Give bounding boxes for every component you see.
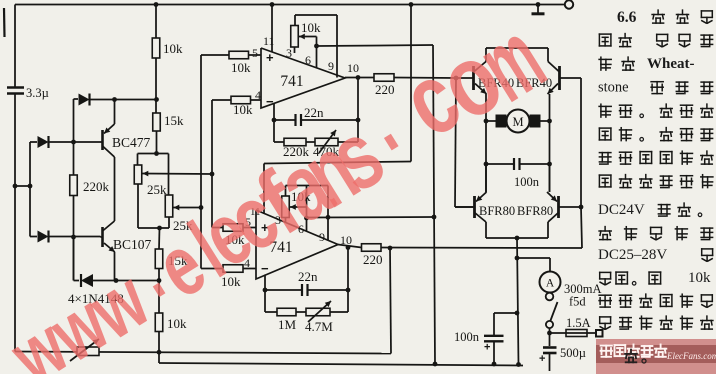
svg-text:15k: 15k — [164, 113, 184, 128]
svg-text:220: 220 — [375, 82, 395, 97]
wire left rail lower — [14, 94, 16, 352]
wire U2 output to right — [381, 247, 582, 250]
svg-text:220: 220 — [363, 252, 383, 267]
svg-text:−: − — [266, 94, 274, 109]
node junction offset negative rail — [432, 215, 437, 220]
potentiometer P3 10k offset — [291, 26, 299, 48]
node junction D2 row x73 — [71, 140, 76, 145]
svg-text:5: 5 — [252, 46, 258, 60]
svg-text:4: 4 — [255, 88, 261, 102]
op-amp U2 input resistor R10 10k — [223, 224, 243, 232]
wire top supply rail — [15, 4, 564, 6]
node junction C6 bottom — [492, 362, 497, 367]
wire U1 pin6 vertical — [316, 37, 318, 68]
wire U2 pin6 vertical — [306, 186, 308, 232]
potentiometer P1 25k upper — [137, 154, 139, 166]
op-amp U1 741 input resistor R6 10k — [229, 51, 249, 59]
svg-text:6: 6 — [305, 53, 311, 67]
wire op-amp U2 supply top — [264, 162, 411, 164]
potentiometer P2 25k lower — [168, 154, 170, 196]
connector supply plug — [536, 2, 541, 7]
node junction D1-BC477 — [112, 97, 117, 102]
wire U2 feedback left — [264, 275, 266, 313]
transistor Q2 BC107 — [101, 227, 104, 247]
diode D2 1N4148 — [30, 141, 37, 143]
node junction P5 wiper — [304, 216, 309, 221]
node junction feedback 22n right — [356, 118, 361, 123]
svg-text:220k: 220k — [83, 179, 110, 194]
resistor R13 1M — [265, 311, 277, 313]
svg-text:10k: 10k — [301, 20, 321, 35]
svg-text:100n: 100n — [454, 330, 480, 344]
node junction diode column — [28, 184, 33, 189]
wire P2 wiper — [174, 207, 202, 209]
op-amp U2 input resistor R11 10k — [223, 265, 243, 273]
op-amp U2 741 — [256, 210, 338, 279]
node junction BFR80 common — [515, 236, 520, 241]
resistor R4 15k lower — [158, 228, 161, 249]
capacitor C6 100n — [494, 312, 517, 314]
node junction R1 top — [154, 2, 159, 7]
logo elecfans — [596, 339, 716, 374]
diode D3 1N4148 — [30, 236, 37, 238]
svg-text:10k: 10k — [163, 41, 183, 56]
wire U2 offset loop top — [286, 185, 329, 187]
capacitor C1 3.3u — [7, 86, 24, 88]
wire U2 feedback right — [347, 248, 349, 313]
wire pots bottom — [138, 227, 169, 229]
node junction right base rail — [579, 205, 584, 210]
node junction C6 top — [515, 311, 520, 316]
node junction U2 22n left — [263, 288, 268, 293]
svg-text:1.5A: 1.5A — [566, 316, 591, 330]
node junction R5-main rail — [157, 350, 162, 355]
svg-text:+: + — [539, 353, 545, 365]
switch S1 blade — [551, 302, 558, 321]
wire inverting rail x201 — [200, 55, 202, 269]
transistor Q6 BFR80 right — [557, 196, 560, 218]
wire BFR40 collectors rail — [486, 47, 548, 49]
svg-text:500µ: 500µ — [560, 346, 586, 360]
svg-text:10k: 10k — [233, 102, 253, 117]
node junction wiper rail — [210, 172, 215, 177]
capacitor C3 22n — [265, 289, 302, 291]
wire U1 offset loop top — [295, 14, 337, 16]
svg-text:3.3µ: 3.3µ — [26, 86, 49, 100]
svg-text:BFR80: BFR80 — [479, 204, 515, 218]
resistor R9 220k feedback — [274, 141, 284, 143]
transistor Q5 BFR80 left — [473, 196, 476, 218]
node junction U2 output — [346, 245, 351, 250]
wire ground rail upper — [15, 352, 391, 354]
node junction pots bottom — [157, 226, 162, 231]
wire P1 wiper to op-amp rail — [143, 173, 213, 176]
wire link to diode column — [15, 185, 30, 187]
node junction C4 right — [547, 162, 552, 167]
wire V+ branch x411 — [409, 2, 414, 7]
node junction output-390 — [388, 246, 393, 251]
svg-text:BFR80: BFR80 — [517, 204, 553, 218]
svg-text:10k: 10k — [167, 316, 187, 331]
node junction U1 output — [356, 75, 361, 80]
node junction D4-BC107 emitter — [114, 278, 119, 283]
capacitor C2 22n — [274, 119, 296, 121]
potentiometer P6 4.7M — [296, 311, 306, 313]
transistor Q3 BFR40 left — [472, 66, 475, 90]
wire BFR80 collectors rail — [486, 237, 548, 239]
wire U1 output — [345, 77, 374, 79]
wire offset loop right — [336, 15, 338, 78]
resistor R2 220k — [70, 175, 78, 196]
svg-text:25k: 25k — [147, 182, 167, 197]
node junction pots top — [154, 151, 159, 156]
node junction left rail y186 — [13, 184, 18, 189]
potentiometer P5 10k offset — [282, 196, 290, 218]
svg-text:DC24V: DC24V — [598, 202, 645, 218]
wire U2 offset to negative rail — [307, 216, 435, 219]
svg-text:ElecFans.com: ElecFans.com — [666, 351, 716, 361]
potentiometer P4 470k — [315, 138, 338, 146]
svg-text:1M: 1M — [278, 317, 297, 332]
diode D1 1N4148 — [74, 98, 79, 100]
wire diode column vertical — [29, 142, 31, 237]
wire U1 feedback right — [357, 78, 359, 143]
node junction P3 wiper — [314, 44, 319, 49]
node junction D3 row x73 — [71, 235, 76, 240]
wire U2 output — [338, 245, 362, 248]
terminal supply circle — [564, 4, 565, 6]
resistor R8 220 — [374, 74, 394, 82]
svg-text:10k: 10k — [231, 60, 251, 75]
node junction C4 left — [484, 162, 489, 167]
resistor R1 10k top — [155, 5, 157, 39]
wire negative rail x433 — [433, 45, 435, 364]
node junction P2 wiper rail — [199, 205, 204, 210]
wire motor return vertical — [517, 238, 519, 365]
node junction motor left — [484, 119, 489, 124]
wire U2 offset loop right — [327, 186, 329, 241]
terminal switch top circle — [546, 293, 554, 301]
node junction D4 to 15k rail — [157, 278, 162, 283]
transistor Q1 BC477 — [101, 130, 104, 150]
svg-text:9: 9 — [328, 59, 334, 73]
wire left base rail x455 — [455, 78, 456, 207]
node junction D1 to 10k rail — [154, 97, 159, 102]
svg-text:stone: stone — [598, 80, 629, 96]
op-amp U1 741 — [261, 48, 345, 108]
wire ammeter branch — [517, 257, 550, 259]
node junction motor return bottom — [516, 362, 521, 367]
wire right base rail x581 — [580, 78, 582, 207]
terminal switch bottom circle — [546, 321, 553, 328]
wire 220k rail — [73, 99, 75, 175]
svg-text:Wheat-: Wheat- — [647, 56, 695, 72]
wire offset to negative rail — [317, 45, 434, 46]
resistor R5 10k bottom — [158, 281, 160, 314]
watermark www.elecfans.com — [0, 0, 563, 374]
wire motor right leg — [549, 121, 551, 192]
wire pots top — [138, 153, 169, 155]
svg-text:6.6: 6.6 — [617, 9, 637, 26]
svg-text:22n: 22n — [298, 269, 318, 284]
svg-text:BC477: BC477 — [112, 135, 151, 150]
svg-text:f5d: f5d — [569, 295, 586, 309]
diode D4 1N4148 — [73, 237, 75, 281]
svg-text:DC25–28V: DC25–28V — [598, 247, 667, 263]
stray page mark — [3, 8, 6, 37]
svg-text:4.7M: 4.7M — [305, 319, 333, 334]
thermistor TH1 — [77, 347, 99, 356]
wire output vertical x390 — [390, 248, 391, 354]
wire U1 pin 11 supply — [270, 2, 275, 7]
node junction negative rail bottom — [433, 362, 438, 367]
svg-text:A: A — [546, 278, 555, 290]
wire ground rail lower — [159, 363, 523, 366]
capacitor C5 500u — [549, 333, 551, 346]
node junction U2 22n right — [346, 288, 351, 293]
resistor R12 220 — [362, 244, 382, 252]
node junction feedback 22n left — [272, 118, 277, 123]
wire non-inverting rail x212 — [211, 100, 213, 228]
op-amp U1 input resistor R7 10k — [231, 96, 251, 104]
wire output rail to BFR40 — [454, 76, 459, 81]
node junction switch-fuse — [549, 328, 551, 333]
svg-text:+: + — [484, 342, 490, 354]
svg-text:741: 741 — [280, 73, 303, 90]
fuse F1 1.5A — [550, 332, 597, 334]
node junction offset loop right — [326, 215, 331, 220]
wire left rail upper — [14, 5, 16, 88]
node junction ammeter branch — [515, 256, 520, 261]
transistor Q4 BFR40 right — [558, 66, 561, 90]
node junction motor right — [547, 119, 552, 124]
svg-text:10k: 10k — [688, 270, 711, 286]
terminal fuse output — [596, 330, 603, 337]
svg-text:3: 3 — [286, 46, 292, 60]
wire motor left leg — [485, 121, 487, 192]
resistor R3 15k — [153, 113, 161, 131]
wire U1 feedback left — [273, 103, 275, 142]
svg-text:100n: 100n — [514, 175, 540, 189]
motor M1 — [486, 120, 496, 122]
capacitor C4 100n motor — [486, 163, 514, 165]
ammeter A1 — [540, 272, 561, 293]
